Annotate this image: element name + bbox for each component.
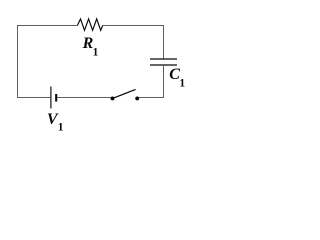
capacitor C1 <box>150 59 177 65</box>
svg-text:1: 1 <box>93 46 99 58</box>
svg-text:1: 1 <box>179 77 185 89</box>
wire left side <box>17 26 19 98</box>
label C1 <box>169 66 185 90</box>
wire bottom middle <box>57 97 111 99</box>
switch S1 <box>111 89 140 100</box>
wire top left <box>17 25 77 27</box>
wire bottom left <box>17 97 50 99</box>
battery V1 <box>51 87 56 109</box>
svg-text:1: 1 <box>58 121 64 133</box>
wire right lower <box>163 65 165 98</box>
wire right upper <box>163 26 165 60</box>
wire bottom right <box>139 97 164 99</box>
wire top right <box>103 25 164 27</box>
label R1 <box>82 35 99 59</box>
resistor R1 <box>77 19 102 30</box>
label V1 <box>47 111 64 133</box>
